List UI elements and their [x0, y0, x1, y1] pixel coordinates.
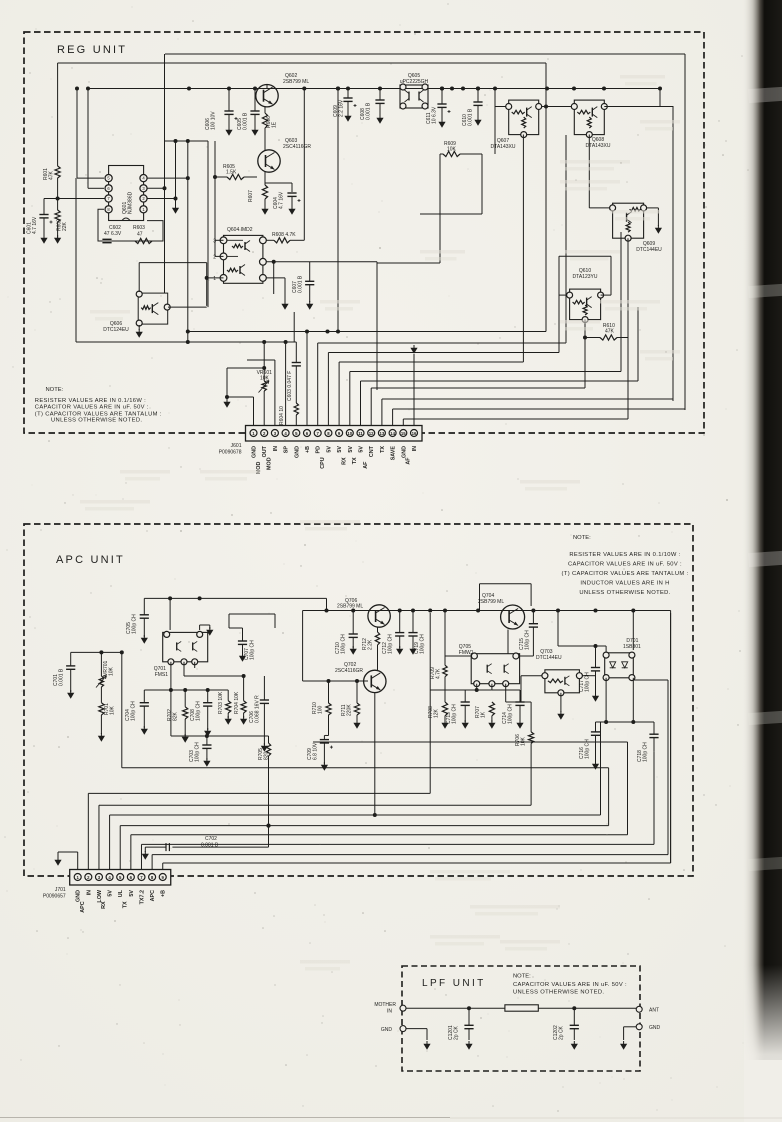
svg-text:0.001 B: 0.001 B [366, 102, 372, 120]
svg-text:TX: TX [380, 446, 386, 453]
svg-text:100p CH: 100p CH [585, 672, 591, 692]
svg-text:P0090678: P0090678 [219, 450, 242, 456]
svg-text:0.068 16V R: 0.068 16V R [255, 695, 261, 723]
svg-text:47K: 47K [49, 170, 55, 180]
svg-text:220K: 220K [347, 704, 353, 716]
svg-text:10K: 10K [110, 705, 116, 715]
svg-text:ANT: ANT [649, 1008, 659, 1014]
svg-text:1K: 1K [481, 711, 487, 718]
svg-text:2SB799 ML: 2SB799 ML [283, 79, 309, 85]
svg-text:uPC2225GH: uPC2225GH [400, 79, 429, 85]
svg-text:J701: J701 [55, 887, 66, 893]
svg-text:IN: IN [387, 1009, 392, 1015]
svg-text:100p CH: 100p CH [341, 634, 347, 654]
svg-text:FMS1: FMS1 [155, 672, 169, 678]
svg-text:GND: GND [76, 890, 82, 902]
svg-text:GND: GND [381, 1027, 393, 1033]
svg-text:5V: 5V [359, 446, 365, 453]
svg-text:100p CH: 100p CH [508, 704, 514, 724]
svg-text:1SB301: 1SB301 [623, 644, 641, 650]
svg-text:15: 15 [401, 431, 406, 436]
svg-text:100p CH: 100p CH [452, 704, 458, 724]
svg-text:NJM386D: NJM386D [128, 191, 134, 214]
svg-text:CNT: CNT [369, 445, 375, 457]
svg-text:NOTE:: NOTE: [513, 974, 531, 980]
svg-text:R704 10K: R704 10K [234, 691, 240, 714]
svg-text:DTA123YU: DTA123YU [573, 274, 598, 280]
svg-text:RX: RX [341, 457, 347, 465]
svg-text:GND: GND [401, 446, 407, 458]
svg-text:0.001 B: 0.001 B [298, 275, 304, 293]
svg-text:AF: AF [363, 461, 369, 469]
svg-text:MOD: MOD [267, 457, 273, 470]
svg-text:GND: GND [252, 446, 258, 458]
svg-text:10 6.3V: 10 6.3V [432, 106, 438, 124]
svg-text:100p CH: 100p CH [420, 634, 426, 654]
svg-text:NOTE:: NOTE: [573, 535, 591, 541]
svg-text:(T) CAPACITOR VALUES ARE TANTA: (T) CAPACITOR VALUES ARE TANTALUM : [35, 411, 162, 417]
svg-text:DTC144EU: DTC144EU [636, 247, 662, 253]
svg-text:5V: 5V [108, 890, 114, 897]
svg-text:12: 12 [369, 431, 374, 436]
svg-text:47K: 47K [605, 329, 615, 335]
svg-text:GND: GND [649, 1025, 661, 1031]
svg-text:DTC144EU: DTC144EU [536, 655, 562, 661]
svg-text:GND: GND [294, 446, 300, 458]
svg-text:UNLESS OTHERWISE NOTED.: UNLESS OTHERWISE NOTED. [579, 590, 670, 596]
svg-text:UL: UL [118, 889, 124, 897]
svg-text:100p CH: 100p CH [388, 634, 394, 654]
svg-text:DTC124EU: DTC124EU [103, 327, 129, 333]
svg-text:R607: R607 [248, 190, 254, 202]
svg-text:14: 14 [390, 431, 395, 436]
svg-text:APC UNIT: APC UNIT [56, 554, 125, 566]
svg-text:TX7.2: TX7.2 [139, 890, 145, 904]
svg-text:RESISTER VALUES ARE IN 0.1/16: RESISTER VALUES ARE IN 0.1/16W : [35, 398, 146, 404]
svg-text:FMW1: FMW1 [459, 650, 474, 656]
svg-text:CPU: CPU [320, 457, 326, 468]
svg-text:2SB799 ML: 2SB799 ML [478, 599, 504, 605]
svg-text:16: 16 [412, 431, 417, 436]
svg-text:APC: APC [80, 901, 86, 912]
svg-text:DTA143XU: DTA143XU [491, 144, 516, 150]
svg-text:100: 100 [318, 705, 324, 714]
svg-text:2p CK: 2p CK [454, 1025, 460, 1040]
svg-text:100p CH: 100p CH [250, 640, 256, 660]
svg-text:NOTE:: NOTE: [46, 387, 64, 393]
svg-text:6.8 10V: 6.8 10V [313, 742, 319, 760]
svg-text:10K: 10K [521, 736, 527, 746]
svg-text:REG UNIT: REG UNIT [57, 44, 127, 56]
svg-text:C702: C702 [205, 836, 217, 842]
svg-text:UNLESS OTHERWISE NOTED.: UNLESS OTHERWISE NOTED. [513, 990, 604, 996]
svg-text:1: 1 [213, 276, 216, 282]
svg-text:+B: +B [161, 890, 167, 897]
svg-text:OUT: OUT [262, 445, 268, 457]
svg-text:47 6.3V: 47 6.3V [104, 231, 122, 237]
svg-text:0.001 B: 0.001 B [59, 668, 65, 686]
svg-text:2p CK: 2p CK [559, 1025, 565, 1040]
svg-text:APC: APC [150, 890, 156, 901]
svg-text:IN: IN [273, 446, 279, 451]
svg-text:100p CH: 100p CH [196, 701, 202, 721]
svg-text:10K: 10K [109, 666, 115, 676]
svg-text:(T) CAPACITOR VALUES ARE TANTA: (T) CAPACITOR VALUES ARE TANTALUM : [562, 571, 689, 577]
svg-text:RX: RX [101, 901, 107, 909]
svg-text:0.001 B: 0.001 B [468, 108, 474, 126]
svg-text:10: 10 [347, 431, 352, 436]
svg-text:1E: 1E [272, 121, 278, 128]
svg-text:IN: IN [412, 446, 418, 451]
svg-text:R603: R603 [133, 225, 145, 231]
svg-text:SP: SP [284, 446, 290, 454]
svg-text:22K: 22K [62, 221, 68, 231]
svg-text:4.7 16V: 4.7 16V [32, 216, 38, 234]
svg-text:100p CH: 100p CH [195, 742, 201, 762]
svg-text:IN: IN [86, 890, 92, 895]
svg-text:100p CH: 100p CH [132, 614, 138, 634]
svg-text:C603 0.047 F: C603 0.047 F [287, 371, 293, 401]
svg-text:4.7K: 4.7K [436, 668, 442, 679]
svg-text:+B: +B [305, 446, 311, 453]
svg-text:5V: 5V [337, 446, 343, 453]
svg-text:4.7 16V: 4.7 16V [279, 191, 285, 209]
svg-text:R604 10: R604 10 [279, 406, 285, 425]
svg-text:LPF UNIT: LPF UNIT [422, 978, 486, 989]
svg-text:82K: 82K [173, 711, 179, 721]
svg-text:MOTHER: MOTHER [374, 1002, 396, 1008]
svg-text:100 10V: 100 10V [211, 111, 217, 130]
svg-text:R608 4.7K: R608 4.7K [272, 232, 296, 238]
svg-text:TX: TX [352, 457, 358, 464]
svg-text:LOW: LOW [97, 889, 103, 902]
svg-text:0.001 B: 0.001 B [243, 112, 249, 130]
svg-text:UNLESS OTHERWISE NOTED.: UNLESS OTHERWISE NOTED. [51, 418, 142, 424]
svg-text:INDUCTOR VALUES ARE IN H: INDUCTOR VALUES ARE IN H [580, 581, 669, 587]
svg-text:CAPACITOR VALUES ARE IN uF. 50: CAPACITOR VALUES ARE IN uF. 50V : [568, 562, 682, 568]
svg-text:CAPACITOR VALUES ARE IN uF. 50: CAPACITOR VALUES ARE IN uF. 50V : [35, 405, 149, 411]
svg-text:2.2K: 2.2K [368, 639, 374, 650]
svg-text:2SB799 ML: 2SB799 ML [337, 604, 363, 610]
svg-text:R703 10K: R703 10K [218, 691, 224, 714]
svg-text:100p CH: 100p CH [131, 701, 137, 721]
svg-text:11: 11 [358, 431, 363, 436]
svg-text:P0090657: P0090657 [43, 894, 66, 900]
svg-text:5V: 5V [348, 446, 354, 453]
svg-text:2.2 16V: 2.2 16V [339, 99, 345, 117]
svg-text:5V: 5V [326, 446, 332, 453]
svg-text:100p CH: 100p CH [643, 742, 649, 762]
svg-text:J601: J601 [231, 443, 242, 449]
svg-text:AF: AF [406, 457, 412, 465]
svg-text:13: 13 [380, 431, 385, 436]
svg-text:2SC4116GR: 2SC4116GR [283, 144, 311, 150]
svg-text:12K: 12K [434, 708, 440, 718]
svg-text:TX: TX [122, 901, 128, 908]
svg-text:820: 820 [264, 751, 270, 760]
svg-text:47: 47 [137, 232, 143, 238]
svg-text:5V: 5V [129, 890, 135, 897]
svg-text:100p CH: 100p CH [525, 630, 531, 650]
svg-text:CAPACITOR VALUES ARE IN uF. 50: CAPACITOR VALUES ARE IN uF. 50V : [513, 982, 627, 988]
svg-text:SAVE: SAVE [391, 446, 397, 461]
svg-text:RESISTER VALUES ARE IN 0.1/10: RESISTER VALUES ARE IN 0.1/10W : [569, 552, 680, 558]
svg-text:2SC4116GR: 2SC4116GR [335, 668, 363, 674]
svg-text:1.5K: 1.5K [226, 170, 237, 176]
svg-text:PD: PD [316, 446, 322, 454]
svg-text:0.001 B: 0.001 B [201, 843, 219, 849]
